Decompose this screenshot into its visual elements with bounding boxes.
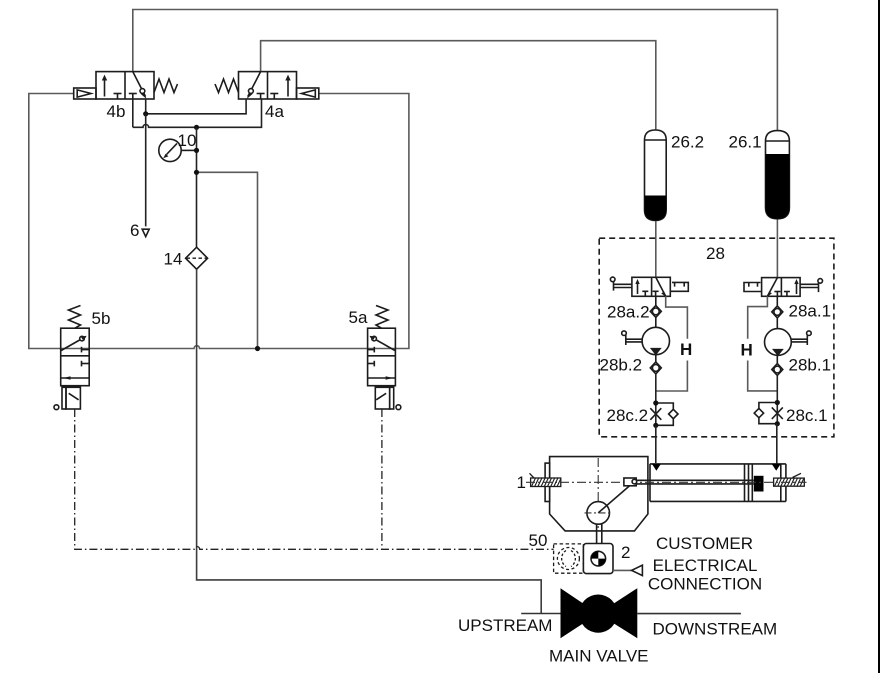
wire 28 left bypass to H line (656, 296, 688, 391)
scotch yoke (587, 478, 754, 524)
svg-text:1: 1 (517, 473, 526, 492)
svg-text:UPSTREAM: UPSTREAM (458, 616, 552, 635)
valve 5b (54, 306, 89, 410)
svg-text:4a: 4a (265, 102, 284, 121)
wire electrical dash-dot from 5a (381, 409, 383, 549)
svg-text:10: 10 (178, 131, 197, 150)
svg-text:5b: 5b (92, 309, 111, 328)
accumulator 26.2 (645, 130, 667, 221)
svg-text:28: 28 (706, 244, 725, 263)
check valve 28b.2 (650, 355, 661, 374)
check valve 28b.1 (772, 355, 783, 375)
node branch tee (194, 170, 199, 175)
wire electrical dash-dot from 5b to positioner (75, 409, 554, 549)
node 28c.1 upper junction (775, 400, 780, 405)
svg-text:28c.1: 28c.1 (786, 406, 828, 425)
position indicator 2 (583, 544, 613, 574)
node junction middle line (255, 346, 260, 351)
svg-text:MAIN VALVE: MAIN VALVE (549, 647, 649, 666)
stem to positioner (596, 524, 598, 544)
node 28c.1 lower junction (775, 421, 780, 426)
svg-text:5a: 5a (349, 308, 368, 327)
piston (754, 476, 764, 492)
svg-text:28b.1: 28b.1 (789, 356, 832, 375)
hand pump 28 right (765, 329, 812, 357)
svg-text:H: H (680, 340, 692, 359)
svg-text:28c.2: 28c.2 (607, 406, 649, 425)
svg-text:28a.2: 28a.2 (607, 303, 650, 322)
svg-text:4b: 4b (107, 102, 126, 121)
svg-text:28b.2: 28b.2 (600, 356, 643, 375)
downstream pipe (637, 613, 741, 615)
check valve 28a.1 (772, 296, 783, 328)
right spring cartridge (774, 473, 805, 486)
left spring cartridge (530, 473, 561, 486)
port right (772, 464, 781, 471)
svg-text:H: H (741, 341, 753, 360)
wire to actuator right port (776, 424, 778, 464)
svg-text:CONNECTION: CONNECTION (648, 575, 762, 594)
svg-text:26.1: 26.1 (729, 133, 762, 152)
svg-text:14: 14 (164, 250, 183, 269)
svg-text:2: 2 (621, 543, 630, 562)
filter 14 (186, 247, 208, 269)
customer connection line and symbol (613, 569, 632, 571)
wire vent line (145, 114, 147, 227)
wire 4b top to accumulator 26.1 (133, 10, 778, 131)
upstream pipe (521, 613, 560, 615)
wire gauge column (196, 127, 198, 247)
svg-text:CUSTOMER: CUSTOMER (656, 534, 753, 553)
node 28c.2 lower junction (653, 423, 658, 428)
valve 4a (215, 72, 319, 99)
svg-text:50: 50 (529, 531, 548, 550)
actuator housing 1 (545, 457, 648, 531)
wire 4b pilot / long middle line / 4a pilot (29, 94, 409, 349)
gauge 10 (159, 139, 197, 161)
svg-text:26.2: 26.2 (671, 133, 704, 152)
wire 28 right bypass to H line (748, 296, 778, 391)
wire 28 left main line (655, 374, 657, 403)
wire 26.2 to valve 28 left (655, 221, 657, 277)
svg-text:28a.1: 28a.1 (789, 302, 832, 321)
node junction supply (194, 125, 199, 130)
wire branch gauge column to middle line (197, 172, 258, 348)
wire 28 right main line (776, 376, 778, 403)
centerline dash-dot (526, 481, 807, 483)
wire 4b supply with crossover to 4a supply (133, 99, 262, 127)
throttle 28c.2 with bypass check (650, 403, 678, 425)
svg-text:ELECTRICAL: ELECTRICAL (653, 556, 758, 575)
right border line (878, 0, 880, 673)
dashed enclosure 28 (599, 238, 834, 437)
main valve ball (561, 588, 599, 638)
wire to actuator left port (655, 425, 657, 463)
hand pump 28 left (622, 327, 670, 355)
wire 4b outlet to 4a outlet (146, 99, 246, 114)
valve 4b (74, 72, 178, 99)
wire supply down to main valve (197, 269, 542, 613)
port left (652, 464, 661, 471)
accumulator 26.1 (766, 131, 790, 219)
svg-text:6: 6 (130, 221, 139, 240)
wire 26.1 to valve 28 right (776, 219, 778, 277)
valve 28 left manual (610, 277, 688, 297)
svg-text:DOWNSTREAM: DOWNSTREAM (653, 620, 778, 639)
valve 5a (368, 306, 401, 410)
vent 6 symbol (142, 229, 149, 236)
actuator cylinder (650, 464, 786, 502)
throttle 28c.1 with bypass check (754, 403, 783, 424)
node 28c.2 upper junction (653, 400, 658, 405)
valve 28 right manual (744, 278, 823, 298)
positioner 50 dashed (554, 544, 584, 573)
node gauge tee (194, 148, 199, 153)
wire 4a top to accumulator 26.2 (261, 41, 656, 130)
check valve 28a.2 (650, 296, 661, 327)
node junction 4b outlet (143, 111, 148, 116)
